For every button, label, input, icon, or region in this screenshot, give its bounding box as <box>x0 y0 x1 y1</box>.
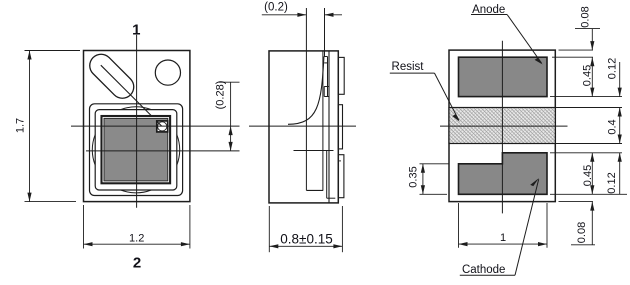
svg-text:1.7: 1.7 <box>15 118 27 133</box>
reflector opening outer rounded square <box>90 104 183 196</box>
dimension 0.45 top (anode pad height) <box>582 57 595 96</box>
svg-text:1: 1 <box>500 232 506 244</box>
chip gray area <box>104 118 168 180</box>
horizontal centerline (side view) <box>249 125 356 127</box>
svg-text:0.8±0.15: 0.8±0.15 <box>280 232 332 247</box>
lead frame strip line <box>328 51 330 203</box>
svg-text:0.12: 0.12 <box>606 172 618 193</box>
lens wall left line <box>305 8 307 190</box>
svg-text:Cathode: Cathode <box>462 264 505 276</box>
lens cavity bottom <box>306 189 323 191</box>
reflector cone arc bottom <box>121 190 152 193</box>
svg-text:0.45: 0.45 <box>582 165 594 186</box>
dimension 1.2 (bottom) <box>84 205 190 249</box>
dimension 0.45 bottom (cathode pad height) <box>582 153 594 195</box>
solder resist strip <box>449 108 555 144</box>
cathode terminal bump (side) <box>338 155 344 198</box>
reflector curve <box>288 57 324 125</box>
dimension 0.8±0.15 (bottom) <box>269 206 342 252</box>
index circle <box>155 60 180 85</box>
reflector cone arc top <box>121 107 152 110</box>
dimension 1.7 (left side) <box>15 51 81 202</box>
dimension (0.28) chip offset <box>215 81 240 151</box>
pin 1 label <box>132 21 140 38</box>
svg-text:0.45: 0.45 <box>582 65 594 86</box>
anode lead cross-section steps <box>324 57 329 97</box>
svg-text:0.08: 0.08 <box>580 6 592 27</box>
leader line from oval to cathode mark <box>101 65 161 125</box>
dimension 0.12 top (gap) <box>607 58 622 97</box>
Cathode label and leader <box>460 178 539 276</box>
side view body outline <box>269 51 338 203</box>
middle body bump (side) <box>338 105 342 149</box>
right side extension ticks <box>550 50 627 202</box>
reflector cone arc left <box>92 135 95 166</box>
dimension 0.08 top <box>575 6 600 50</box>
dimension 1 (bottom of pad view) <box>459 203 548 248</box>
cathode pad (stepped) <box>459 153 548 195</box>
polarity oval mark <box>101 66 122 87</box>
svg-text:0.4: 0.4 <box>607 119 619 134</box>
horizontal centerline (pad view) <box>440 125 568 127</box>
svg-text:0.08: 0.08 <box>576 222 588 243</box>
Resist label and leader <box>390 61 460 122</box>
chip block dark square <box>102 116 171 183</box>
dimension 0.08 bottom <box>571 202 595 245</box>
svg-text:(0.2): (0.2) <box>264 2 288 14</box>
cathode lead cross-section lines <box>294 151 336 199</box>
dimension (0.2) lens wall <box>262 2 342 17</box>
horizontal centerline (left view) <box>71 125 240 127</box>
svg-text:1: 1 <box>132 21 140 38</box>
svg-text:(0.28): (0.28) <box>215 81 227 110</box>
svg-text:2: 2 <box>133 254 141 271</box>
anode terminal bump (side) <box>338 57 344 94</box>
cathode electrode mark circle <box>156 121 167 131</box>
pin 2 label <box>133 254 141 271</box>
dimension 0.35 (left of pad view) <box>408 164 450 195</box>
vertical centerline (pad view) <box>501 41 503 214</box>
pad layout outline <box>449 50 555 202</box>
svg-text:0.35: 0.35 <box>408 166 420 187</box>
svg-text:Resist: Resist <box>392 61 425 73</box>
reflector cone arc right <box>177 135 180 166</box>
Anode label and leader <box>471 4 543 65</box>
cathode electrode mark square <box>157 121 168 132</box>
svg-text:1.2: 1.2 <box>129 233 144 245</box>
dimension 0.12 bottom (gap) <box>606 153 622 195</box>
lens cavity right wall <box>322 51 324 191</box>
reflector opening inner rounded square <box>95 110 177 190</box>
svg-text:0.12: 0.12 <box>607 58 619 79</box>
dimension 0.4 (resist height) <box>607 108 622 144</box>
package outline (top view) <box>84 51 190 202</box>
lens wall right extension line <box>324 8 326 57</box>
chip centerline (left view) <box>86 150 240 152</box>
vertical centerline (left view) <box>136 35 138 208</box>
anode pad <box>459 57 548 96</box>
